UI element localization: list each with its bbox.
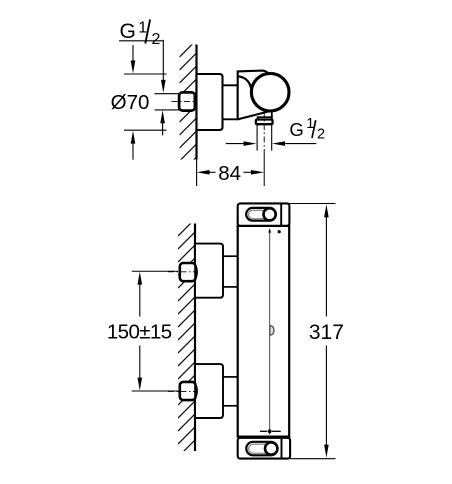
arrow down to flange top xyxy=(131,45,136,74)
dimension 150±15 xyxy=(107,272,172,391)
svg-text:317: 317 xyxy=(309,321,344,344)
upper union centerline xyxy=(132,270,178,272)
svg-text:G: G xyxy=(120,20,136,43)
bracket concave front curve xyxy=(238,76,252,94)
nut centerline dash-dot xyxy=(172,101,197,103)
dimension 84 xyxy=(197,157,264,186)
arrow down to nut top (G1/2 leader) xyxy=(161,40,166,93)
upper union nut xyxy=(180,263,196,281)
outlet neck below circle xyxy=(271,112,273,118)
mixer body (front view) xyxy=(238,226,290,437)
lower union nut xyxy=(180,382,196,400)
top cap (handle end) xyxy=(238,203,290,225)
svg-text:150±15: 150±15 xyxy=(107,321,172,344)
svg-text:2: 2 xyxy=(317,127,325,143)
svg-text:1: 1 xyxy=(138,20,147,37)
wall hatching (top view) xyxy=(180,37,200,174)
svg-text:2: 2 xyxy=(152,31,161,48)
arrow up to nut bottom xyxy=(160,110,165,135)
svg-text:Ø70: Ø70 xyxy=(111,91,150,114)
wall line (top view) xyxy=(195,45,197,160)
upper connector to body xyxy=(223,255,238,257)
dimension extension lines (nut top/bottom) xyxy=(155,93,180,95)
body centerline xyxy=(269,229,271,434)
bottom cap (handle end) xyxy=(238,438,290,459)
union nut on wall (side view) xyxy=(179,92,195,110)
shank between flange and valve body xyxy=(223,85,238,119)
screw dot xyxy=(278,230,281,233)
label G1/2 (right of outlet) xyxy=(289,116,325,142)
thermostat handle circle (side view) xyxy=(251,73,289,111)
outlet centerline dash-dot xyxy=(263,112,265,153)
wall hatching (bottom view) xyxy=(178,216,198,470)
svg-text:G: G xyxy=(289,119,303,140)
upper union flange xyxy=(195,244,223,298)
lower connector to body xyxy=(223,376,238,378)
top handle pill xyxy=(246,208,276,221)
dimension extension lines left (flange top/bottom) xyxy=(124,73,167,75)
bottom handle knob circle xyxy=(265,442,277,454)
label G1/2 (top left) xyxy=(119,20,163,49)
wall line (bottom view) xyxy=(194,224,196,452)
dimension G1/2 outlet arrows xyxy=(226,141,316,146)
dimension 317 xyxy=(289,204,344,459)
outlet pipe edges xyxy=(256,124,258,150)
lower union flange xyxy=(195,364,223,418)
lower union centerline xyxy=(132,390,178,392)
svg-text:84: 84 xyxy=(218,162,241,185)
top handle knob circle xyxy=(264,208,276,220)
escutcheon flange (side view) xyxy=(197,74,223,130)
valve bracket body (side view) xyxy=(238,71,272,120)
outlet fitting nut xyxy=(256,120,273,125)
centerline top arrow xyxy=(268,228,271,232)
mid body button xyxy=(270,326,274,335)
arrow up to flange bottom xyxy=(131,131,136,160)
bottom handle pill xyxy=(246,442,277,456)
outlet fitting upper band xyxy=(258,117,272,119)
bottom marker xyxy=(260,430,267,432)
